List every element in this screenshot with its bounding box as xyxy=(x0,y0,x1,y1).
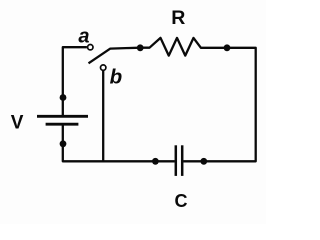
svg-text:C: C xyxy=(175,191,188,211)
svg-text:V: V xyxy=(11,113,24,134)
svg-text:b: b xyxy=(110,65,123,88)
svg-text:R: R xyxy=(171,7,185,29)
svg-text:a: a xyxy=(78,25,89,47)
